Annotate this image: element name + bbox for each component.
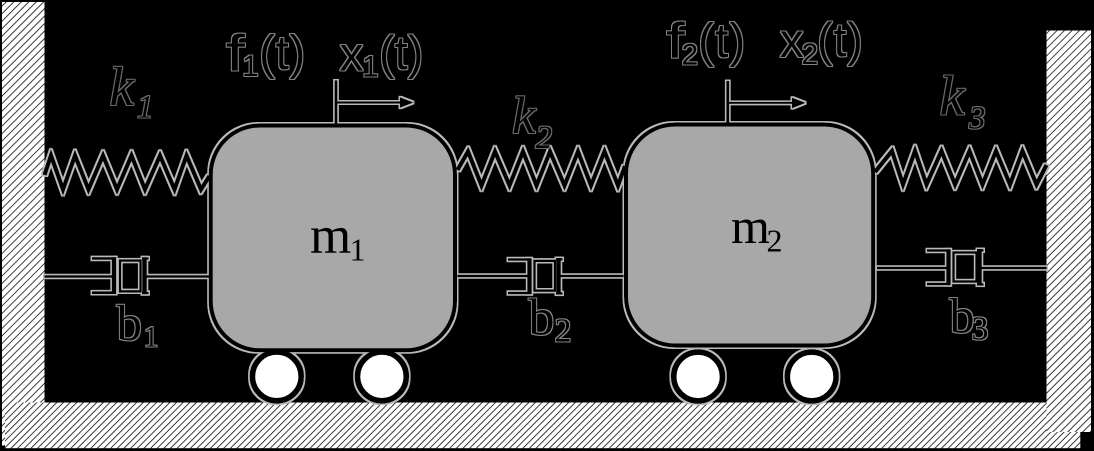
svg-text:m: m [731, 198, 770, 254]
svg-text:(t): (t) [817, 13, 864, 66]
b3 piston plate [946, 249, 950, 285]
wheel m1 right [358, 352, 407, 401]
label f1(t) [226, 24, 306, 83]
x1 reference tick bar on mass m1 [335, 80, 338, 125]
svg-text:b: b [117, 296, 143, 352]
x1 arrowhead [400, 97, 414, 108]
svg-text:(t): (t) [259, 27, 306, 80]
b3 rod from mass m2 [877, 267, 947, 270]
b1 rod from left wall [45, 275, 114, 278]
b3 right plate bottom stub [977, 283, 984, 285]
mass m2 [626, 125, 873, 346]
b2 right end plate [556, 258, 561, 295]
spring k1 [45, 156, 210, 190]
b2 right plate bottom stub [556, 292, 563, 294]
damper B2 [458, 258, 624, 295]
svg-text:1: 1 [242, 50, 259, 83]
b1 right plate top stub [142, 257, 149, 259]
svg-text:2: 2 [767, 223, 783, 259]
b2 rod to mass m2 [561, 275, 624, 278]
b1 rod to mass m1 [147, 275, 210, 278]
b1 cylinder bottom flange [92, 291, 116, 294]
svg-text:b: b [529, 290, 555, 347]
damper B3 [877, 249, 1047, 286]
label b1 [117, 296, 159, 354]
x2 arrowhead [792, 98, 806, 109]
svg-text:3: 3 [972, 311, 989, 348]
svg-text:x: x [780, 15, 804, 68]
b3 rod to right wall [982, 267, 1047, 270]
b2 right plate top stub [556, 258, 563, 260]
right wall [1047, 31, 1092, 433]
b1 cylinder box [120, 261, 141, 292]
x1 arrow shaft [337, 102, 402, 104]
b1 cylinder top flange [92, 257, 116, 260]
svg-text:k: k [940, 66, 966, 128]
svg-text:2: 2 [555, 313, 572, 350]
label x2(t) [780, 13, 864, 71]
damper B1 [45, 257, 210, 294]
b3 cylinder top flange [927, 249, 950, 252]
label m1 [310, 207, 366, 267]
svg-text:3: 3 [968, 101, 986, 137]
b3 right plate top stub [977, 249, 984, 251]
left wall [2, 2, 45, 446]
b2 piston plate [527, 258, 531, 294]
svg-text:1: 1 [137, 89, 154, 125]
svg-text:x: x [340, 28, 364, 81]
b2 cylinder box [535, 261, 556, 291]
b2 cylinder bottom flange [508, 292, 531, 295]
b1 right plate bottom stub [142, 292, 149, 294]
b3 cylinder box [954, 253, 977, 282]
svg-text:(t): (t) [379, 26, 423, 79]
svg-text:1: 1 [144, 321, 159, 354]
svg-text:1: 1 [362, 50, 379, 83]
wheel m2 left [674, 352, 723, 401]
svg-text:2: 2 [802, 38, 819, 71]
label k1 [110, 56, 154, 125]
label f2(t) [666, 13, 746, 72]
b2 cylinder top flange [508, 258, 531, 261]
floor [5, 403, 1080, 449]
mass m1 [211, 126, 455, 351]
wheel m1 left [252, 352, 301, 401]
svg-text:2: 2 [536, 120, 553, 156]
x2 arrow shaft [729, 102, 794, 104]
b3 right end plate [977, 249, 982, 286]
svg-text:2: 2 [682, 39, 699, 72]
spring k2 [458, 152, 626, 186]
b3 cylinder bottom flange [927, 283, 950, 286]
svg-text:k: k [110, 56, 136, 117]
b1 right end plate [142, 257, 147, 294]
svg-text:k: k [512, 87, 537, 145]
svg-text:1: 1 [350, 231, 366, 267]
label x1(t) [340, 26, 424, 83]
label b2 [529, 290, 572, 350]
svg-text:(t): (t) [698, 15, 746, 68]
label m2 [731, 198, 783, 259]
label k2 [512, 87, 552, 156]
label b3 [950, 288, 989, 348]
svg-text:m: m [310, 207, 351, 265]
b1 piston plate [112, 257, 116, 294]
wheel m2 right [787, 352, 836, 401]
b2 rod from mass m1 [458, 275, 529, 278]
label k3 [940, 66, 986, 137]
spring k3 [875, 151, 1047, 185]
x2 reference tick bar on mass m2 [726, 81, 729, 126]
